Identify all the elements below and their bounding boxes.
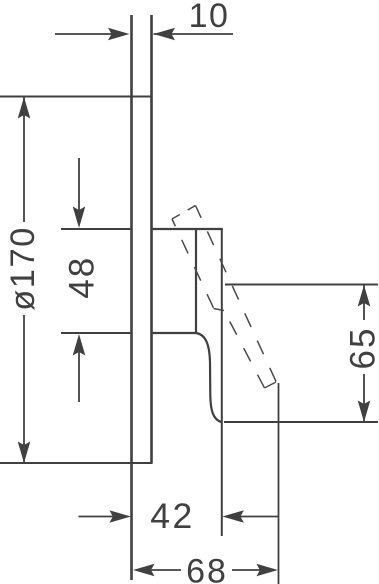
svg-text:ø170: ø170 — [4, 226, 42, 311]
svg-text:42: 42 — [150, 496, 195, 536]
svg-text:65: 65 — [344, 327, 379, 370]
svg-text:48: 48 — [62, 256, 101, 299]
svg-text:10: 10 — [189, 0, 230, 35]
svg-text:68: 68 — [186, 553, 228, 584]
